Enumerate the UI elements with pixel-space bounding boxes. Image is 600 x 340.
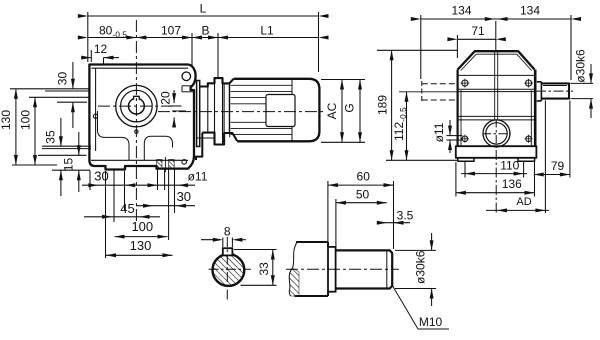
input bore center cross	[483, 133, 511, 135]
svg-text:12: 12	[94, 42, 108, 56]
output cover step	[182, 85, 194, 87]
keyway slot	[223, 248, 233, 255]
housing interior contour left	[98, 111, 130, 160]
svg-text:M10: M10	[419, 315, 443, 329]
hub top line	[296, 241, 328, 243]
foot section hatch left	[157, 159, 162, 168]
dim 100 left	[34, 97, 36, 165]
hub break hatch	[289, 268, 299, 296]
adapter bottom profile	[202, 133, 237, 145]
dim 134 134	[421, 18, 571, 20]
dim row 80/107/B/L1	[88, 37, 319, 39]
housing inner left line	[95, 68, 97, 151]
foot bolt hole circle	[182, 160, 187, 165]
output hub circle	[121, 90, 153, 122]
dim row3 45	[84, 216, 160, 218]
witness foot holes	[464, 162, 466, 178]
bore keyway	[134, 96, 140, 100]
svg-text:130: 130	[0, 110, 13, 130]
hub bottom line	[295, 295, 329, 297]
svg-text:107: 107	[161, 24, 181, 38]
svg-text:AC: AC	[325, 102, 339, 119]
dim 79	[534, 174, 570, 176]
svg-text:50: 50	[356, 187, 370, 201]
dim 112-0.5	[406, 92, 408, 161]
right shaft center line	[536, 90, 573, 92]
dim L	[88, 15, 319, 17]
dim o11 front	[447, 135, 463, 137]
oil plug circle	[182, 72, 191, 81]
dim 20 bore	[173, 90, 175, 103]
section center lines	[209, 268, 252, 270]
svg-text:30: 30	[94, 169, 108, 184]
ext motor top	[321, 79, 365, 81]
svg-text:35: 35	[44, 130, 58, 144]
front inner verticals	[460, 90, 462, 146]
svg-text:33: 33	[257, 262, 271, 276]
output bore circle	[129, 98, 145, 114]
front body sides	[457, 70, 459, 147]
output axis horizontal center line	[98, 105, 176, 107]
dim 110	[461, 173, 527, 175]
feet	[458, 158, 474, 161]
dim 3.5	[377, 222, 394, 224]
top screws	[462, 80, 468, 86]
svg-text:79: 79	[551, 159, 565, 173]
dim AD	[486, 209, 549, 211]
ext shaft dia	[395, 249, 436, 251]
witness left face	[87, 12, 89, 62]
front center line below	[495, 150, 497, 213]
base block	[456, 146, 537, 158]
svg-text:189: 189	[376, 95, 390, 115]
svg-text:100: 100	[19, 110, 33, 130]
dim 15 left	[78, 132, 80, 155]
motor axis center line	[158, 111, 326, 113]
adapter foot	[196, 133, 202, 160]
foot hole center line	[164, 157, 166, 172]
svg-text:L: L	[200, 2, 207, 16]
front center line horizontal	[399, 91, 459, 93]
svg-text:100: 100	[131, 219, 153, 234]
svg-text:45: 45	[120, 201, 134, 216]
adapter full verticals	[207, 87, 209, 133]
svg-text:136: 136	[502, 177, 522, 191]
dim 189	[391, 50, 393, 160]
dim 71	[457, 38, 495, 40]
dim G	[359, 80, 361, 143]
svg-text:71: 71	[471, 24, 485, 38]
svg-text:ø11: ø11	[432, 122, 446, 142]
witness center top	[495, 21, 497, 50]
shaft body	[336, 250, 393, 288]
dim o30k6 front	[571, 82, 594, 84]
svg-text:B: B	[201, 24, 209, 38]
output shaft outer circle	[116, 85, 157, 126]
motor fin end ring	[291, 80, 293, 141]
front center double line	[494, 51, 496, 146]
keyway witness lines	[222, 238, 224, 248]
bottom screws	[462, 136, 468, 142]
small dot below output bore	[135, 130, 138, 133]
dim o30k6 shaft	[431, 233, 433, 250]
svg-text:30: 30	[177, 189, 191, 204]
svg-text:15: 15	[62, 158, 76, 172]
dim 136	[456, 192, 535, 194]
dim 60	[328, 184, 394, 186]
shaft center line	[286, 268, 399, 270]
witness 60	[327, 181, 329, 248]
ext base bottom left	[386, 159, 458, 161]
hub right edges	[327, 242, 329, 247]
dim 30 upper left	[72, 62, 74, 89]
cap inner lines	[461, 54, 532, 70]
hidden input shaft dashed	[421, 81, 423, 102]
right shaft front view	[541, 83, 569, 98]
dim 8	[201, 239, 220, 241]
witness AD right	[544, 101, 546, 214]
svg-text:G: G	[343, 103, 357, 112]
hub break line	[289, 242, 297, 296]
front horizontal lines	[458, 74, 535, 76]
ext cap top left	[377, 49, 457, 51]
witness motor flange	[217, 33, 219, 77]
gearbox housing outline	[89, 65, 195, 170]
right shaft inner line	[543, 85, 567, 87]
svg-text:60: 60	[357, 170, 371, 184]
dim AC	[341, 80, 343, 143]
fan cap outline	[458, 51, 535, 69]
svg-text:ø30k6: ø30k6	[574, 49, 588, 83]
adapter plate	[197, 81, 200, 147]
dim row1 30 / holes	[82, 184, 195, 186]
shoulder ring	[328, 247, 336, 292]
dim 33	[272, 250, 274, 286]
motor body outline	[234, 79, 320, 142]
base flange top line	[91, 159, 188, 161]
section circle	[213, 254, 245, 286]
dim 35 left	[60, 118, 62, 146]
bottom witness lines	[89, 171, 91, 191]
witness 134 right	[570, 15, 572, 80]
dim row2 30 right	[136, 205, 195, 207]
adapter top profile	[200, 78, 234, 86]
output axis vertical center line	[135, 20, 137, 222]
svg-text:30: 30	[56, 72, 70, 86]
witness 134 left	[420, 15, 422, 79]
motor cooling fins	[231, 84, 292, 86]
terminal box	[266, 95, 295, 127]
housing inner top line	[92, 67, 189, 69]
input bore circles	[483, 120, 510, 147]
svg-text:3.5: 3.5	[397, 208, 414, 222]
svg-text:ø30k6: ø30k6	[414, 250, 428, 284]
right shaft root ring	[537, 82, 542, 101]
svg-text:130: 130	[130, 238, 152, 253]
svg-text:20: 20	[159, 91, 173, 105]
dim 130 left	[15, 89, 17, 165]
svg-text:ø11: ø11	[188, 170, 208, 184]
witness 50	[335, 199, 337, 246]
witness motor end	[318, 12, 320, 72]
svg-text:L1: L1	[260, 24, 274, 38]
witness flange face	[191, 33, 193, 66]
ext lines left side	[10, 88, 89, 90]
svg-text:AD: AD	[516, 196, 531, 208]
svg-text:134: 134	[451, 4, 471, 18]
svg-text:134: 134	[520, 4, 540, 18]
motor left edge	[229, 84, 231, 137]
ext motor bottom	[321, 141, 365, 143]
dim 33 ext lines	[234, 249, 277, 251]
dim row4 100	[115, 236, 168, 238]
housing interior contour right	[144, 136, 172, 160]
small hole left wall	[93, 114, 97, 118]
foot section hatch right	[169, 159, 175, 168]
svg-text:8: 8	[224, 225, 231, 239]
dim row5 130	[106, 254, 173, 256]
shaft chamfer line	[386, 251, 388, 288]
witness shaft tip down	[569, 101, 571, 178]
witness base edges	[455, 162, 457, 197]
M10 leader	[392, 284, 419, 329]
adapter under line	[197, 137, 216, 139]
dim 50	[336, 202, 387, 204]
svg-text:110: 110	[500, 159, 519, 173]
dim 12	[81, 57, 91, 59]
